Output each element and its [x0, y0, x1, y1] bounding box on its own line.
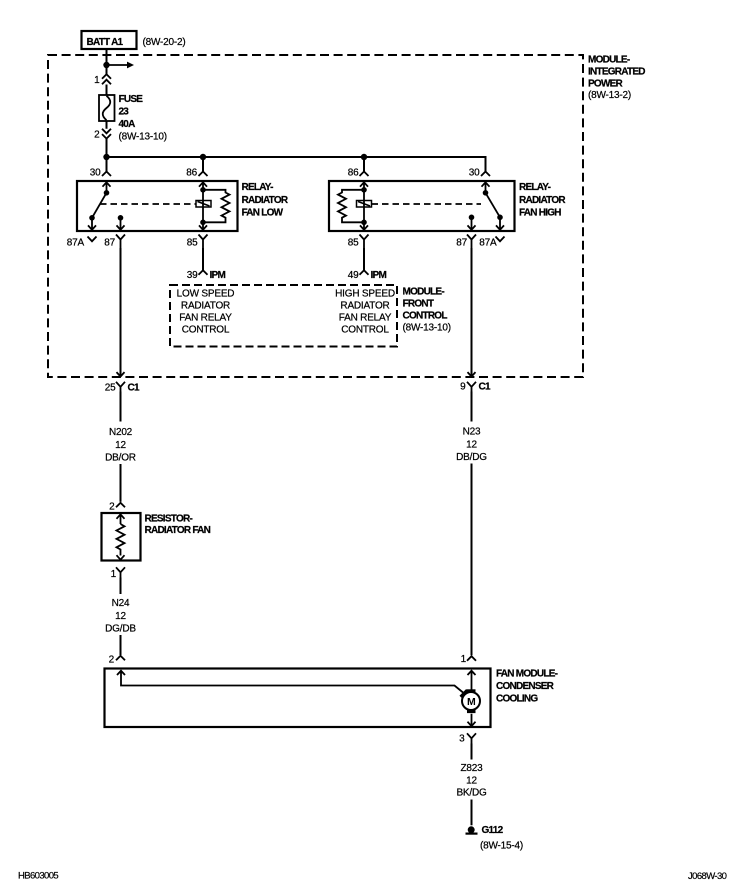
svg-text:C1: C1 — [479, 382, 491, 393]
node relay2 86 junction — [361, 154, 367, 160]
node relay1 coil top — [200, 187, 206, 193]
node battery feed junction — [103, 62, 109, 68]
connector C1 pin 9 — [467, 382, 476, 392]
svg-text:J068W-30: J068W-30 — [688, 871, 727, 882]
svg-text:CONTROL: CONTROL — [182, 325, 230, 336]
ground G112 — [468, 826, 475, 833]
svg-text:FAN RELAY: FAN RELAY — [179, 313, 232, 324]
fan pin2 internal arrow and wire to motor — [117, 671, 463, 693]
svg-text:85: 85 — [187, 238, 198, 249]
wire relay1 85 to IPM — [202, 248, 204, 270]
relay1 coil wire — [202, 190, 204, 223]
svg-text:MODULE-: MODULE- — [588, 55, 630, 66]
node relay1 switch common — [104, 190, 110, 196]
svg-text:RELAY-: RELAY- — [519, 182, 551, 193]
svg-text:40A: 40A — [119, 119, 136, 130]
relay2 coil — [357, 201, 372, 208]
svg-text:12: 12 — [115, 611, 126, 622]
wire relay1 87 down to C1 — [120, 248, 122, 376]
svg-text:CONTROL: CONTROL — [403, 311, 448, 322]
wire bus to relay2 pin86 — [363, 157, 365, 172]
module-front control dashed box — [170, 285, 397, 347]
svg-text:25: 25 — [105, 383, 116, 394]
svg-text:LOW SPEED: LOW SPEED — [177, 289, 235, 300]
svg-text:RESISTOR-: RESISTOR- — [145, 514, 193, 525]
fan pin1 internal arrow and wire — [468, 671, 476, 690]
wire relay2 87 down to C1 — [471, 248, 473, 376]
svg-text:POWER: POWER — [588, 79, 624, 90]
resistor internal top arrow — [117, 514, 125, 524]
svg-text:23: 23 — [119, 107, 130, 118]
relay1 pin 87A internal arrow — [88, 218, 96, 230]
svg-text:RADIATOR: RADIATOR — [242, 195, 289, 206]
svg-text:G112: G112 — [482, 825, 504, 836]
svg-text:86: 86 — [186, 168, 197, 179]
svg-text:86: 86 — [348, 168, 359, 179]
relay2 armature dashed link — [372, 203, 482, 205]
motor brush tab bottom — [467, 709, 476, 713]
relay K2 RELAY-RADIATOR FAN HIGH box — [329, 181, 515, 231]
relay2 parallel resistor — [338, 190, 364, 223]
svg-text:FUSE: FUSE — [119, 94, 144, 105]
wire fuse to bus — [106, 121, 108, 157]
svg-text:FRONT: FRONT — [403, 299, 434, 310]
svg-text:87A: 87A — [479, 238, 497, 249]
arrow at module edge left — [117, 372, 125, 376]
svg-text:M: M — [467, 696, 476, 708]
node relay2 coil bottom — [361, 220, 367, 226]
svg-text:RADIATOR: RADIATOR — [519, 195, 566, 206]
svg-text:FAN HIGH: FAN HIGH — [519, 208, 561, 219]
node relay2 87A — [497, 215, 503, 221]
wire N202 lower — [120, 464, 122, 502]
relay1 switch blade — [92, 193, 107, 218]
fan pin3 internal wire and arrow — [468, 714, 476, 726]
svg-text:30: 30 — [469, 168, 480, 179]
arrow branch to right — [107, 64, 128, 66]
svg-text:49: 49 — [348, 270, 359, 281]
svg-text:FAN LOW: FAN LOW — [242, 208, 284, 219]
svg-text:2: 2 — [109, 502, 115, 513]
fan module-condenser cooling box — [105, 669, 491, 728]
relay2 pin 87A internal arrow — [496, 217, 504, 230]
relay1 armature dashed link — [100, 203, 196, 205]
svg-text:(8W-13-10): (8W-13-10) — [119, 132, 167, 143]
svg-text:IPM: IPM — [371, 270, 387, 281]
relay1 coil — [196, 201, 211, 208]
svg-text:1: 1 — [94, 75, 100, 86]
wire bus to relay1 pin86 — [202, 157, 204, 172]
wire BATT A1 down to fuse pin 1 — [106, 49, 108, 95]
svg-text:C1: C1 — [128, 383, 140, 394]
wire N202 upper — [120, 392, 122, 422]
resistor internal bottom arrow — [117, 555, 125, 560]
motor brush tab upper-left — [459, 689, 469, 699]
svg-text:12: 12 — [466, 776, 477, 787]
svg-text:FAN RELAY: FAN RELAY — [339, 313, 392, 324]
svg-text:BK/DG: BK/DG — [456, 788, 487, 799]
svg-text:COOLING: COOLING — [496, 694, 538, 705]
node relay2 coil top — [361, 187, 367, 193]
svg-text:87A: 87A — [67, 238, 85, 249]
node fuse-bus junction — [103, 154, 109, 160]
relay2 pin30 internal arrow — [482, 182, 490, 193]
svg-text:3: 3 — [459, 734, 465, 745]
svg-text:(8W-13-2): (8W-13-2) — [588, 90, 631, 101]
svg-text:12: 12 — [115, 440, 126, 451]
svg-text:(8W-20-2): (8W-20-2) — [143, 37, 186, 48]
svg-text:RELAY-: RELAY- — [242, 182, 274, 193]
svg-text:87: 87 — [456, 238, 467, 249]
svg-text:N24: N24 — [112, 598, 130, 609]
node relay1 coil bottom — [200, 220, 206, 226]
resistor element zigzag — [117, 524, 125, 556]
svg-text:30: 30 — [90, 168, 101, 179]
svg-text:MODULE-: MODULE- — [403, 287, 445, 298]
relay2 switch blade — [486, 193, 501, 218]
relay K1 RELAY-RADIATOR FAN LOW box — [77, 181, 238, 231]
svg-text:39: 39 — [187, 270, 198, 281]
relay1 pin 87 internal arrow — [117, 218, 125, 230]
wire N23 upper — [471, 392, 473, 422]
svg-text:9: 9 — [460, 382, 466, 393]
svg-text:87: 87 — [104, 238, 115, 249]
svg-text:1: 1 — [111, 569, 117, 580]
svg-text:(8W-13-10): (8W-13-10) — [403, 323, 451, 334]
svg-text:RADIATOR FAN: RADIATOR FAN — [145, 525, 211, 536]
svg-text:RADIATOR: RADIATOR — [181, 301, 230, 312]
svg-text:Z823: Z823 — [461, 763, 484, 774]
svg-text:FAN MODULE-: FAN MODULE- — [496, 669, 558, 680]
svg-text:CONDENSER: CONDENSER — [496, 681, 555, 692]
svg-text:DB/OR: DB/OR — [105, 453, 136, 464]
svg-text:N23: N23 — [463, 427, 481, 438]
wire N24 upper — [120, 578, 122, 595]
resistor-radiator fan box — [102, 513, 141, 561]
svg-text:DB/DG: DB/DG — [456, 452, 487, 463]
wire N24 lower — [120, 635, 122, 655]
wire N23 lower — [471, 464, 473, 656]
svg-text:HB603005: HB603005 — [18, 871, 58, 882]
svg-text:BATT A1: BATT A1 — [87, 37, 124, 48]
relay1 parallel resistor — [203, 190, 230, 223]
motor brush tab top — [467, 689, 476, 693]
svg-text:2: 2 — [94, 130, 100, 141]
bus wire to relays — [107, 157, 486, 172]
fuse F23 — [99, 95, 115, 121]
svg-text:INTEGRATED: INTEGRATED — [588, 67, 645, 78]
relay1 pin30 internal arrow — [103, 182, 111, 193]
svg-text:2: 2 — [109, 655, 115, 666]
node relay1 86 junction — [200, 154, 206, 160]
relay2 pin86 internal arrow — [360, 182, 368, 190]
svg-text:12: 12 — [466, 440, 477, 451]
node relay2 87 — [469, 215, 475, 221]
wire bus to relay1 pin30 — [106, 157, 108, 172]
svg-text:CONTROL: CONTROL — [341, 325, 389, 336]
svg-text:DG/DB: DG/DB — [105, 624, 136, 635]
relay2 coil wire — [363, 190, 365, 223]
node relay1 87 — [118, 215, 124, 221]
wire Z823 upper — [471, 744, 473, 760]
svg-text:HIGH SPEED: HIGH SPEED — [335, 289, 395, 300]
svg-text:1: 1 — [461, 654, 467, 665]
arrow at module edge right — [468, 372, 476, 376]
node relay1 87A — [89, 215, 95, 221]
svg-text:IPM: IPM — [210, 270, 226, 281]
node relay2 switch common — [483, 190, 489, 196]
relay1 pin85 internal arrow — [199, 222, 207, 230]
wire relay2 85 to IPM — [363, 248, 365, 270]
relay1 pin86 internal arrow — [199, 182, 207, 190]
wire Z823 lower — [471, 800, 473, 826]
svg-text:(8W-15-4): (8W-15-4) — [480, 841, 523, 852]
power source box BATT A1 — [82, 31, 137, 49]
svg-text:85: 85 — [348, 238, 359, 249]
relay2 pin 87 internal arrow — [468, 217, 476, 230]
svg-text:N202: N202 — [109, 427, 133, 438]
relay2 pin85 internal arrow — [360, 222, 368, 230]
motor M1 — [462, 692, 480, 710]
svg-text:RADIATOR: RADIATOR — [340, 301, 389, 312]
module-integrated power dashed box — [48, 55, 583, 377]
